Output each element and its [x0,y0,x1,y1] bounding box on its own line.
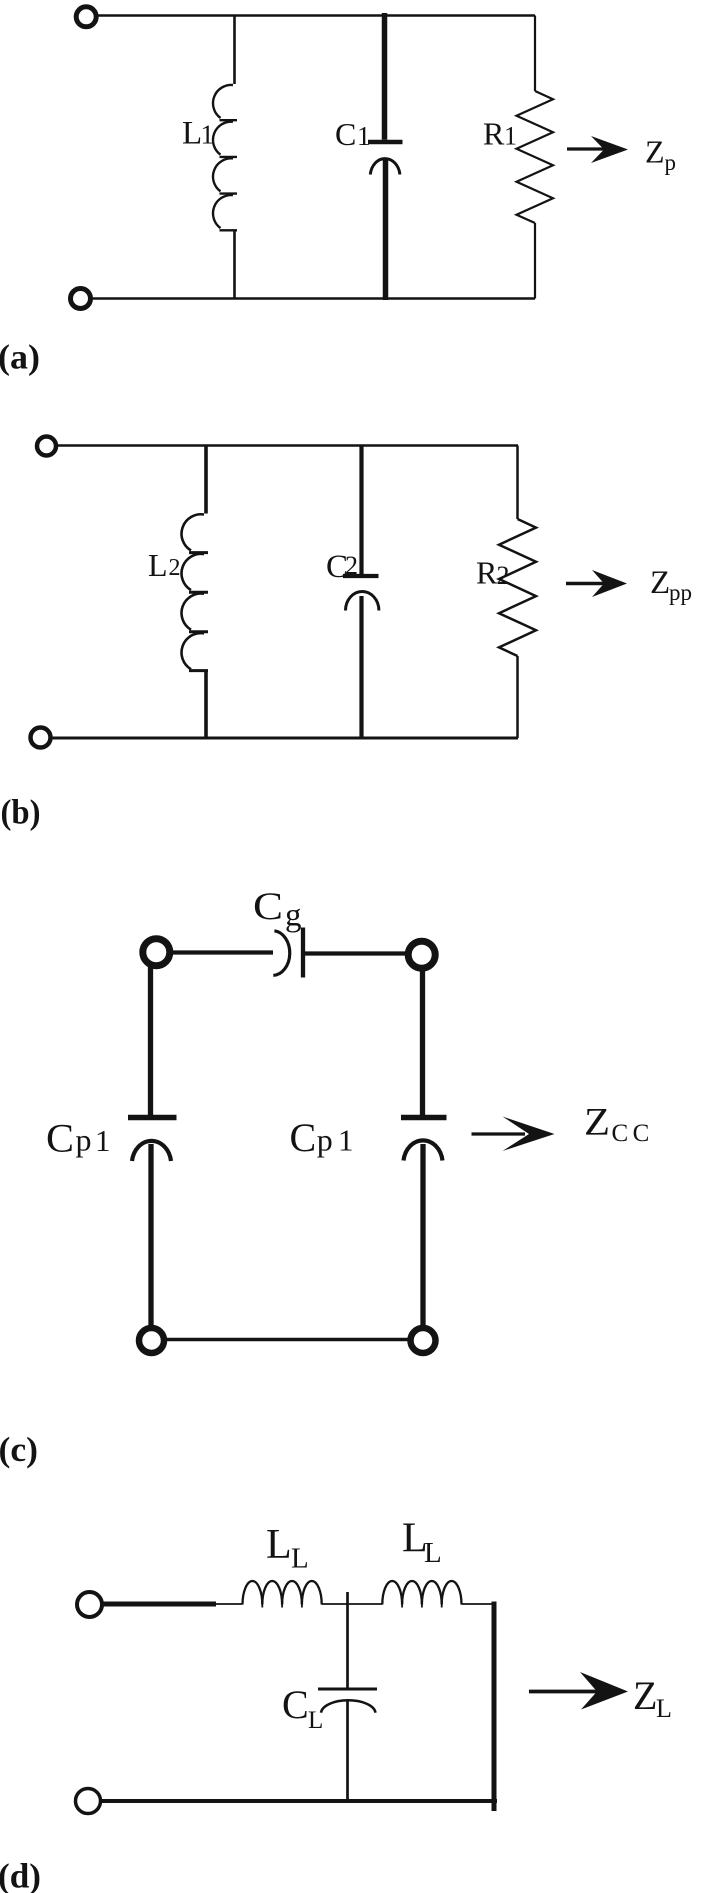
capacitor C1 bottom lead [383,158,389,300]
node bottom-right (c) [411,1328,436,1353]
inductor L1 [213,85,237,230]
wire right vertical thick (d) [492,1602,497,1812]
wire L2 bottom lead [204,670,208,738]
svg-text:p: p [317,1122,333,1158]
svg-text:L: L [424,1537,442,1569]
capacitor Cp1-left curved plate [132,1141,171,1161]
capacitor C2 flat plate [343,574,379,578]
svg-text:CC: CC [612,1120,654,1147]
svg-text:p: p [665,150,677,175]
terminal bottom-left (d) [76,1789,101,1814]
capacitor C2 top lead [359,446,363,575]
arrow (b) head [592,570,627,597]
svg-text:g: g [285,898,302,934]
terminal top-left (a) [76,7,96,27]
capacitor CL curved plate [321,1700,376,1712]
capacitor Cp1-right bottom lead [420,1144,425,1326]
wire to right branch (d) [462,1603,493,1605]
svg-text:1: 1 [201,119,215,149]
resistor R2 bottom lead [516,656,519,738]
svg-text:Z: Z [633,1673,657,1718]
arrow (a) head [591,136,628,163]
wire input thick (d) [102,1602,216,1607]
svg-text:Z: Z [650,565,670,601]
terminal top-left (d) [77,1592,102,1617]
wire between inductors (d) [322,1603,383,1605]
wire top (a) [97,14,535,17]
capacitor Cp1-left top lead [148,966,153,1115]
svg-text:L: L [266,1522,292,1568]
svg-text:L: L [656,1694,672,1723]
resistor R1 zigzag [517,91,554,223]
wire bottom (a) [91,297,536,300]
svg-text:C: C [282,1682,309,1727]
inductor LL-2 [382,1581,461,1608]
wire top (b) [56,444,518,447]
svg-text:L: L [291,1543,309,1575]
capacitor C1 top lead [382,13,388,140]
capacitor C2 bottom lead [359,596,363,739]
capacitor CL bottom lead [346,1700,349,1801]
svg-text:2: 2 [497,561,510,590]
wire bottom (c) [165,1338,409,1342]
capacitor C2 curved plate [346,592,379,611]
wire top-left segment (c) [171,950,273,954]
inductor LL-1 [243,1581,322,1608]
capacitor Cp1-right curved plate [404,1140,443,1160]
inductor L2 [182,514,208,670]
svg-text:1: 1 [95,1123,111,1158]
arrow (d) head [580,1672,628,1710]
terminal bottom-left (b) [31,728,51,748]
svg-text:R: R [476,555,498,591]
node top-left (c) [143,939,170,966]
arrow (c) head [503,1117,555,1152]
svg-text:2: 2 [169,555,181,581]
svg-text:(d): (d) [0,1857,41,1893]
svg-text:Z: Z [645,134,665,170]
svg-text:L: L [308,1707,323,1734]
svg-text:C: C [253,885,283,928]
resistor R1 bottom lead [534,223,536,299]
capacitor C1 curved plate [370,159,400,175]
wire L1 top lead [233,16,236,85]
arrow (a) shaft [567,147,609,150]
resistor R1 top lead [534,16,536,92]
arrow (d) shaft [529,1690,597,1694]
svg-text:C: C [335,116,356,152]
wire L1 bottom lead [233,230,236,298]
svg-text:(a): (a) [0,338,40,377]
svg-text:(b): (b) [1,793,41,832]
wire top-right segment (c) [305,951,407,955]
arrow (c) shaft [472,1132,526,1135]
node top-right (c) [408,941,435,968]
node bottom-left (c) [139,1328,164,1353]
svg-text:C: C [46,1116,74,1161]
svg-text:(c): (c) [0,1430,38,1469]
capacitor Cp1-left bottom lead [148,1144,153,1326]
resistor R2 zigzag [499,519,536,656]
svg-text:1: 1 [338,1123,354,1158]
svg-text:L: L [182,115,202,151]
svg-text:p: p [76,1122,92,1158]
capacitor Cp1-right top lead [420,969,425,1115]
capacitor CL flat plate [318,1688,377,1691]
terminal top-left (b) [37,437,56,456]
capacitor Cp1-right flat plate [401,1115,447,1121]
wire bottom (b) [50,737,518,740]
svg-text:1: 1 [357,121,371,151]
capacitor Cg curved plate [273,931,289,976]
capacitor Cg flat plate [301,928,305,978]
resistor R2 top lead [516,446,519,520]
wire L2 top lead [204,446,208,514]
svg-text:C: C [290,1115,317,1160]
junction vertical upper (d) [346,1592,349,1688]
svg-text:2: 2 [345,551,358,580]
terminal bottom-left (a) [71,289,91,309]
arrow (b) shaft [566,582,608,585]
svg-text:R: R [483,116,505,152]
svg-text:pp: pp [669,580,692,605]
wire bottom (d) [100,1799,497,1803]
svg-text:Z: Z [584,1100,610,1143]
capacitor C1 flat plate [368,140,403,144]
wire input thin (d) [216,1603,243,1605]
capacitor Cp1-left flat plate [128,1115,177,1121]
svg-text:L: L [148,547,168,583]
svg-text:1: 1 [504,122,517,151]
